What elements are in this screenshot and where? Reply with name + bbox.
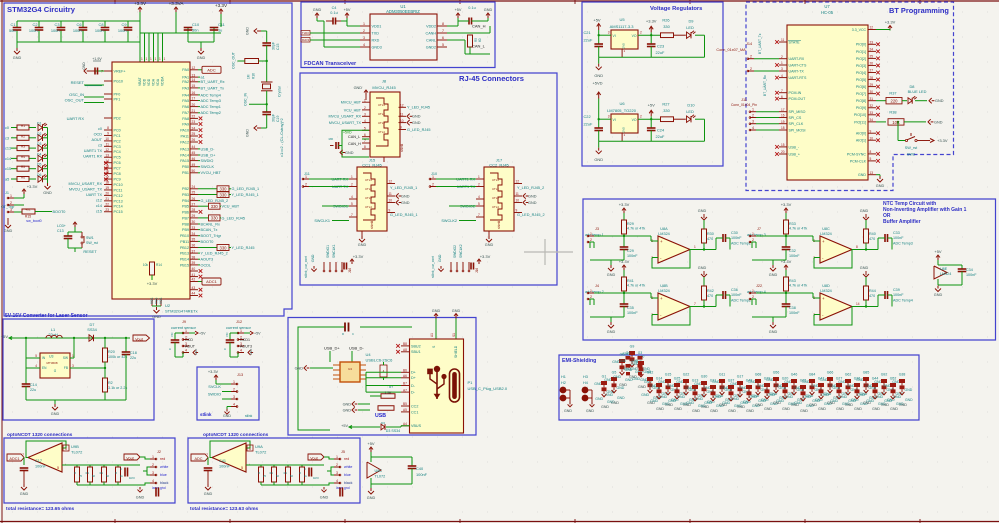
svg-text:G38: G38 xyxy=(899,373,906,377)
svg-text:LM7805_TO220: LM7805_TO220 xyxy=(607,108,637,113)
svg-text:GND: GND xyxy=(438,254,442,262)
svg-text:401: 401 xyxy=(25,208,30,212)
svg-text:UART TX: UART TX xyxy=(86,193,103,197)
svg-text:22uF: 22uF xyxy=(656,50,665,55)
svg-text:PA5: PA5 xyxy=(182,99,189,103)
svg-text:GND: GND xyxy=(484,8,493,12)
svg-text:R4: R4 xyxy=(21,155,25,159)
svg-text:GND: GND xyxy=(830,399,838,403)
svg-text:VVCU_HBT: VVCU_HBT xyxy=(201,171,222,175)
svg-text:PC8: PC8 xyxy=(114,172,121,176)
svg-text:GND: GND xyxy=(223,414,231,418)
svg-text:ADC Temp1: ADC Temp1 xyxy=(201,105,221,109)
svg-text:10: 10 xyxy=(389,199,393,203)
svg-text:GND: GND xyxy=(758,399,766,403)
svg-text:C2: C2 xyxy=(33,22,38,27)
svg-text:27: 27 xyxy=(192,202,196,206)
svg-text:PC5: PC5 xyxy=(114,156,121,160)
svg-text:+1.9V: +1.9V xyxy=(92,57,102,61)
svg-text:RxD3: RxD3 xyxy=(302,38,309,42)
svg-text:D4: D4 xyxy=(37,152,41,156)
svg-text:GND: GND xyxy=(564,409,572,413)
svg-text:+5V: +5V xyxy=(648,103,656,108)
svg-text:VCU_HBT: VCU_HBT xyxy=(222,205,240,209)
svg-text:+3.3VA: +3.3VA xyxy=(169,1,185,6)
svg-text:+3.3V: +3.3V xyxy=(619,259,630,264)
svg-text:GND: GND xyxy=(43,191,52,195)
svg-text:PA0: PA0 xyxy=(182,68,189,72)
svg-text:LM324: LM324 xyxy=(940,272,951,276)
svg-text:C: C xyxy=(120,467,122,471)
svg-text:23: 23 xyxy=(192,120,196,124)
svg-text:C14: C14 xyxy=(30,383,37,387)
svg-text:GND: GND xyxy=(767,393,775,397)
svg-text:G3: G3 xyxy=(638,351,643,355)
svg-text:D3 SS34: D3 SS34 xyxy=(386,429,400,433)
svg-text:32: 32 xyxy=(870,104,874,108)
svg-text:R30: R30 xyxy=(707,232,714,236)
svg-text:c3: c3 xyxy=(98,143,102,147)
svg-text:1u: 1u xyxy=(218,28,222,33)
svg-text:C34: C34 xyxy=(966,268,973,272)
svg-text:H4: H4 xyxy=(583,381,588,385)
svg-text:OSC_OUT: OSC_OUT xyxy=(232,51,236,69)
svg-text:AOUT: AOUT xyxy=(185,345,196,349)
svg-text:R: R xyxy=(74,471,76,475)
svg-text:VI: VI xyxy=(613,34,616,38)
svg-text:14: 14 xyxy=(192,78,196,82)
svg-text:8: 8 xyxy=(870,150,872,154)
svg-text:2: 2 xyxy=(640,31,642,35)
svg-text:GND: GND xyxy=(845,403,853,407)
svg-text:G5: G5 xyxy=(612,371,617,375)
svg-text:+: + xyxy=(822,239,825,244)
svg-text:1RO: 1RO xyxy=(313,476,320,480)
svg-text:28: 28 xyxy=(870,76,874,80)
svg-text:red: red xyxy=(344,457,349,461)
svg-text:MVCU_USART_TX: MVCU_USART_TX xyxy=(69,188,103,192)
svg-text:GND: GND xyxy=(320,496,329,500)
svg-text:2: 2 xyxy=(336,463,338,467)
svg-text:C41: C41 xyxy=(219,459,226,463)
svg-text:GND: GND xyxy=(935,99,944,103)
svg-text:J22: J22 xyxy=(756,284,762,288)
svg-text:R38: R38 xyxy=(889,110,896,115)
svg-text:blue: blue xyxy=(344,473,351,477)
svg-text:9: 9 xyxy=(107,132,109,136)
svg-text:sw_boot0: sw_boot0 xyxy=(26,219,41,223)
svg-text:GND: GND xyxy=(643,367,651,371)
svg-text:17: 17 xyxy=(781,108,785,112)
svg-text:GND: GND xyxy=(656,407,664,411)
svg-text:GND: GND xyxy=(345,151,354,155)
svg-text:PC15: PC15 xyxy=(114,210,123,214)
svg-text:RJ-45 Connectors: RJ-45 Connectors xyxy=(459,74,524,83)
svg-text:16: 16 xyxy=(781,114,785,118)
svg-text:Voltage Regulators: Voltage Regulators xyxy=(650,6,702,12)
svg-text:12: 12 xyxy=(400,104,404,108)
svg-text:PF0: PF0 xyxy=(114,92,121,96)
svg-text:EN: EN xyxy=(42,366,47,370)
svg-text:CC1: CC1 xyxy=(411,410,418,414)
svg-text:PC1: PC1 xyxy=(114,134,121,138)
svg-text:U7: U7 xyxy=(824,4,830,9)
svg-text:100n: 100n xyxy=(73,28,82,33)
svg-text:current sensor: current sensor xyxy=(226,325,252,330)
svg-text:PIO[4]: PIO[4] xyxy=(856,71,866,75)
svg-text:GND: GND xyxy=(728,409,736,413)
svg-text:GND: GND xyxy=(4,229,13,233)
svg-text:4: 4 xyxy=(781,74,783,78)
svg-text:PIO[10]: PIO[10] xyxy=(854,113,866,117)
svg-text:U8C: U8C xyxy=(375,469,383,473)
svg-text:c0: c0 xyxy=(98,127,102,131)
svg-text:R40: R40 xyxy=(869,232,876,236)
svg-text:330: 330 xyxy=(220,245,228,250)
svg-text:5: 5 xyxy=(241,466,243,470)
svg-text:CC2: CC2 xyxy=(411,404,418,408)
svg-text:PCM-CLK: PCM-CLK xyxy=(850,159,867,163)
svg-text:R1: R1 xyxy=(284,471,288,475)
svg-text:ADC Temp2: ADC Temp2 xyxy=(201,111,221,115)
svg-text:G46: G46 xyxy=(791,373,798,377)
svg-text:PC2: PC2 xyxy=(114,139,121,143)
svg-text:PB9: PB9 xyxy=(182,228,189,232)
svg-text:R26: R26 xyxy=(662,18,669,23)
svg-text:GND: GND xyxy=(794,401,802,405)
svg-text:12: 12 xyxy=(192,66,196,70)
svg-text:PB6: PB6 xyxy=(182,210,189,214)
svg-text:GND: GND xyxy=(854,407,862,411)
svg-text:SW_rst: SW_rst xyxy=(86,241,98,245)
svg-text:white: white xyxy=(160,465,168,469)
svg-text:BT Programming: BT Programming xyxy=(889,6,949,15)
svg-text:GND: GND xyxy=(586,409,594,413)
svg-text:GND: GND xyxy=(905,388,913,392)
svg-text:1: 1 xyxy=(363,22,365,26)
svg-text:optoNCDT 1320 connections: optoNCDT 1320 connections xyxy=(7,432,73,438)
svg-text:PIO[5]: PIO[5] xyxy=(856,78,866,82)
svg-text:1: 1 xyxy=(10,194,12,198)
svg-text:41: 41 xyxy=(192,273,196,277)
svg-text:C30: C30 xyxy=(731,231,738,235)
svg-text:1: 1 xyxy=(185,329,187,333)
svg-text:26: 26 xyxy=(192,138,196,142)
svg-text:4: 4 xyxy=(752,126,754,130)
svg-text:GND: GND xyxy=(632,377,640,381)
svg-text:100n: 100n xyxy=(51,28,60,33)
svg-text:c14: c14 xyxy=(96,204,102,208)
svg-text:D10: D10 xyxy=(687,103,695,108)
svg-text:SWDIO1: SWDIO1 xyxy=(326,245,330,258)
svg-text:+5V: +5V xyxy=(934,249,942,254)
svg-text:C36: C36 xyxy=(731,288,738,292)
svg-text:LM324: LM324 xyxy=(658,289,670,293)
svg-text:1: 1 xyxy=(752,108,754,112)
svg-text:TL072: TL072 xyxy=(255,450,267,455)
svg-text:2: 2 xyxy=(590,238,592,242)
svg-text:R: R xyxy=(258,471,260,475)
svg-text:USB_D+: USB_D+ xyxy=(201,153,217,157)
svg-text:G_LED_RJ45_2: G_LED_RJ45_2 xyxy=(517,213,545,217)
svg-text:PB7: PB7 xyxy=(182,216,189,220)
svg-text:GND: GND xyxy=(601,405,609,409)
svg-text:11: 11 xyxy=(516,192,520,196)
svg-text:17: 17 xyxy=(192,97,196,101)
svg-text:TxD3: TxD3 xyxy=(302,31,309,35)
svg-text:GND: GND xyxy=(836,407,844,411)
svg-text:+3.3V: +3.3V xyxy=(781,202,792,207)
svg-text:U2: U2 xyxy=(165,303,171,308)
svg-text:PB2: PB2 xyxy=(182,187,189,191)
svg-text:PA9: PA9 xyxy=(182,122,189,126)
svg-text:GND: GND xyxy=(812,399,820,403)
svg-text:GND: GND xyxy=(246,129,250,137)
svg-text:PC3: PC3 xyxy=(114,145,121,149)
svg-text:Vout: Vout xyxy=(310,457,317,461)
svg-text:26: 26 xyxy=(870,62,874,66)
svg-text:c15: c15 xyxy=(5,167,11,171)
svg-text:3: 3 xyxy=(233,395,235,399)
svg-text:C: C xyxy=(352,332,354,336)
svg-text:BCANL_Rx: BCANL_Rx xyxy=(201,222,221,226)
svg-text:3: 3 xyxy=(72,364,74,368)
svg-text:GND: GND xyxy=(934,120,943,124)
svg-text:100nF: 100nF xyxy=(35,465,46,469)
svg-text:AIO[0]: AIO[0] xyxy=(856,132,866,136)
svg-text:ADC Temp3: ADC Temp3 xyxy=(893,242,913,246)
svg-text:2: 2 xyxy=(363,29,365,33)
svg-text:total resistance= 123.65 ohms: total resistance= 123.65 ohms xyxy=(6,506,74,512)
svg-text:5: 5 xyxy=(442,43,444,47)
svg-text:4: 4 xyxy=(233,402,235,406)
svg-text:GND: GND xyxy=(668,399,676,403)
svg-text:GND: GND xyxy=(746,409,754,413)
svg-text:SPI_CS: SPI_CS xyxy=(789,116,802,120)
svg-text:SPI_CLK: SPI_CLK xyxy=(789,122,804,126)
svg-text:USB_D-: USB_D- xyxy=(349,346,364,351)
svg-text:FB: FB xyxy=(64,366,68,370)
svg-text:Conn_01x07_MA: Conn_01x07_MA xyxy=(716,48,746,52)
svg-text:1: 1 xyxy=(351,175,353,179)
svg-text:2: 2 xyxy=(750,67,752,71)
svg-text:100k or 42k: 100k or 42k xyxy=(108,355,127,359)
svg-text:C23: C23 xyxy=(657,44,664,49)
svg-text:Y_LED_RJ45_2: Y_LED_RJ45_2 xyxy=(201,252,228,256)
svg-text:100nF: 100nF xyxy=(731,293,742,297)
svg-text:J7: J7 xyxy=(757,227,761,231)
svg-text:4: 4 xyxy=(35,364,37,368)
svg-text:SWDIO2: SWDIO2 xyxy=(453,245,457,258)
svg-text:100nF: 100nF xyxy=(966,273,977,277)
svg-text:GND: GND xyxy=(749,395,757,399)
svg-text:GND: GND xyxy=(659,395,667,399)
svg-text:GND: GND xyxy=(740,401,748,405)
svg-text:USB_C_Plug_USB2.0: USB_C_Plug_USB2.0 xyxy=(468,386,508,391)
svg-text:+3.3V: +3.3V xyxy=(134,1,147,6)
svg-text:PCM-OUT: PCM-OUT xyxy=(789,97,807,101)
svg-text:BCAN_Tx: BCAN_Tx xyxy=(201,228,218,232)
svg-text:GND: GND xyxy=(20,492,29,496)
svg-text:PB15: PB15 xyxy=(180,263,189,267)
svg-text:white: white xyxy=(344,465,352,469)
svg-text:20: 20 xyxy=(781,150,785,154)
svg-text:UTL1: UTL1 xyxy=(492,178,499,182)
svg-text:30pF: 30pF xyxy=(272,114,276,122)
svg-text:BT_UART_Tx: BT_UART_Tx xyxy=(201,86,225,90)
svg-text:5: 5 xyxy=(351,202,353,206)
svg-text:stlink_cur_cont: stlink_cur_cont xyxy=(304,256,308,278)
svg-text:R1: R1 xyxy=(21,124,25,128)
svg-text:shield: shield xyxy=(400,143,404,152)
svg-text:Y_LED_RJ45: Y_LED_RJ45 xyxy=(232,246,255,250)
svg-text:U8B: U8B xyxy=(660,284,668,288)
svg-text:VI: VI xyxy=(613,118,616,122)
svg-text:21: 21 xyxy=(105,197,109,201)
svg-text:GND: GND xyxy=(631,367,639,371)
svg-text:OT_Trgr: OT_Trgr xyxy=(1,205,15,209)
svg-text:16: 16 xyxy=(192,91,196,95)
svg-text:GND: GND xyxy=(246,27,250,35)
svg-text:C: C xyxy=(168,348,172,350)
svg-text:C39: C39 xyxy=(893,288,900,292)
svg-text:8: 8 xyxy=(364,145,366,149)
svg-text:+3.3V: +3.3V xyxy=(480,254,491,259)
svg-text:VDD: VDD xyxy=(147,78,151,86)
svg-text:7: 7 xyxy=(206,453,208,457)
svg-text:30: 30 xyxy=(192,220,196,224)
svg-text:100nF: 100nF xyxy=(416,472,428,477)
svg-text:42: 42 xyxy=(192,278,196,282)
svg-text:GND: GND xyxy=(899,403,907,407)
svg-text:D3: D3 xyxy=(37,142,41,146)
svg-text:GND: GND xyxy=(876,184,885,188)
svg-text:3: 3 xyxy=(336,471,338,475)
svg-text:SS34: SS34 xyxy=(87,327,97,332)
svg-text:GND: GND xyxy=(893,395,901,399)
svg-text:GND2: GND2 xyxy=(426,45,436,49)
svg-text:GND: GND xyxy=(197,56,206,60)
svg-text:ADC1: ADC1 xyxy=(206,279,217,284)
svg-text:c15: c15 xyxy=(96,209,102,213)
svg-text:R43: R43 xyxy=(789,279,796,283)
svg-text:31: 31 xyxy=(870,97,874,101)
svg-text:U4: U4 xyxy=(348,367,352,371)
svg-text:C10: C10 xyxy=(192,22,200,27)
svg-text:24: 24 xyxy=(192,126,196,130)
svg-text:UART-RTS: UART-RTS xyxy=(789,76,807,80)
svg-text:PF1: PF1 xyxy=(114,97,121,101)
svg-text:10: 10 xyxy=(105,137,109,141)
svg-text:J4: J4 xyxy=(595,284,599,288)
svg-text:BOOT_Trigr: BOOT_Trigr xyxy=(201,234,222,238)
svg-text:GND: GND xyxy=(860,266,869,270)
svg-text:100nF: 100nF xyxy=(789,311,800,315)
svg-text:4.7k or 47k: 4.7k or 47k xyxy=(789,284,807,288)
svg-text:D+: D+ xyxy=(411,376,416,380)
svg-text:U9B: U9B xyxy=(71,444,79,449)
svg-text:1: 1 xyxy=(590,232,592,236)
svg-text:AOUT3: AOUT3 xyxy=(201,258,214,262)
svg-text:GND: GND xyxy=(800,409,808,413)
svg-text:CAN_H: CAN_H xyxy=(472,24,486,29)
svg-text:C33: C33 xyxy=(893,231,900,235)
svg-text:GND: GND xyxy=(698,209,707,213)
svg-text:100nF: 100nF xyxy=(893,293,904,297)
svg-text:PC11: PC11 xyxy=(114,188,123,192)
svg-text:2: 2 xyxy=(752,295,754,299)
svg-text:GND: GND xyxy=(857,393,865,397)
svg-text:OCDL: OCDL xyxy=(201,263,212,267)
svg-text:GND: GND xyxy=(839,395,847,399)
svg-text:G_LED_RJ45_2: G_LED_RJ45_2 xyxy=(201,199,229,203)
svg-text:GND: GND xyxy=(136,496,145,500)
svg-text:8: 8 xyxy=(442,22,444,26)
svg-text:22uF: 22uF xyxy=(584,38,593,43)
svg-text:15: 15 xyxy=(192,84,196,88)
svg-text:SW2: SW2 xyxy=(907,153,915,157)
svg-text:D5: D5 xyxy=(37,163,41,167)
svg-text:GND: GND xyxy=(607,273,616,277)
svg-text:Vout: Vout xyxy=(135,336,144,341)
svg-text:29: 29 xyxy=(192,214,196,218)
svg-text:2: 2 xyxy=(752,113,754,117)
svg-text:PD2: PD2 xyxy=(114,116,121,120)
svg-text:ADM3050EEBRIZ: ADM3050EEBRIZ xyxy=(386,9,420,14)
svg-text:GND: GND xyxy=(848,399,856,403)
svg-text:J14: J14 xyxy=(746,42,752,46)
svg-text:+5VD: +5VD xyxy=(343,131,352,135)
svg-text:SWCLK: SWCLK xyxy=(201,165,215,169)
svg-text:SWCLK1: SWCLK1 xyxy=(314,219,330,223)
svg-text:SPI_MOSI: SPI_MOSI xyxy=(789,128,806,132)
svg-text:PA11: PA11 xyxy=(181,134,189,138)
svg-text:PB5: PB5 xyxy=(182,205,189,209)
svg-text:a5: a5 xyxy=(5,178,9,182)
svg-text:330: 330 xyxy=(663,108,670,113)
svg-text:9: 9 xyxy=(400,126,402,130)
svg-text:25: 25 xyxy=(870,55,874,59)
svg-text:4: 4 xyxy=(185,348,187,352)
svg-text:8: 8 xyxy=(856,245,858,249)
svg-text:+: + xyxy=(660,239,663,244)
svg-text:PIO[2]: PIO[2] xyxy=(856,57,866,61)
svg-text:SWCLK2: SWCLK2 xyxy=(459,244,463,258)
svg-text:UTL3: UTL3 xyxy=(365,196,372,200)
svg-text:PA1: PA1 xyxy=(182,76,189,80)
svg-text:J12: J12 xyxy=(236,320,242,324)
svg-text:1: 1 xyxy=(478,175,480,179)
svg-text:1: 1 xyxy=(781,61,783,65)
svg-text:2: 2 xyxy=(432,182,434,186)
svg-text:PC6: PC6 xyxy=(114,161,121,165)
svg-text:PC13: PC13 xyxy=(114,199,123,203)
svg-text:330: 330 xyxy=(211,216,219,221)
svg-text:6: 6 xyxy=(249,447,251,451)
svg-text:SPI_MISO: SPI_MISO xyxy=(789,110,806,114)
svg-text:GND: GND xyxy=(631,359,639,363)
svg-text:LED: LED xyxy=(686,109,694,114)
svg-text:5: 5 xyxy=(57,466,59,470)
svg-text:USB_-: USB_- xyxy=(789,145,800,149)
svg-text:UART RX: UART RX xyxy=(67,116,85,121)
svg-text:100nF: 100nF xyxy=(627,311,638,315)
svg-text:46: 46 xyxy=(192,157,196,161)
svg-text:BLUE LED: BLUE LED xyxy=(908,89,927,94)
svg-text:MT3608: MT3608 xyxy=(46,361,57,365)
svg-text:11: 11 xyxy=(400,113,404,117)
svg-text:22uF: 22uF xyxy=(656,134,665,139)
